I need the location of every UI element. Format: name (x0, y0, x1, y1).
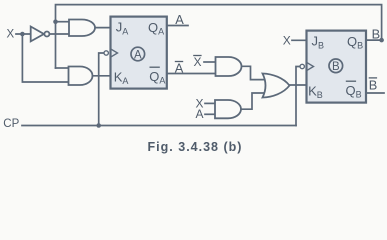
flip-flop U-B box (307, 31, 367, 103)
flip-flop B clock bubble (300, 64, 304, 68)
svg-text:A: A (134, 49, 142, 61)
wire: top-left AND output to JA input (95, 27, 111, 29)
wire: X stub into bottom-middle AND upper input (205, 102, 215, 104)
wire: OR output to KB input (290, 84, 307, 86)
inverter (NOT gate) on X input (31, 27, 44, 42)
svg-text:B: B (372, 26, 381, 41)
AND gate lower-left (inputs B, X; output to KA) (69, 67, 93, 86)
wire: CP line (22, 125, 296, 127)
AND gate bottom-middle (inputs X, A) (215, 100, 241, 118)
svg-text:X: X (283, 33, 291, 47)
flip-flop A clock triangle (104, 49, 118, 57)
circled designator B (329, 59, 343, 73)
wire: X input to inverter (16, 33, 31, 35)
wire: X node down then right to lower-left AND lower input (22, 34, 69, 82)
wire: clock B from CP line up to clock bubble (296, 67, 301, 126)
flip-flop B pin labels (308, 34, 363, 100)
junction: feedback B branch node (53, 19, 58, 24)
svg-text:Fig. 3.4.38 (b): Fig. 3.4.38 (b) (148, 140, 243, 154)
wire: X input stub to JB (292, 39, 307, 41)
svg-text:A: A (175, 60, 184, 75)
wire: inverter output Xbar to top-left AND lower input (49, 33, 69, 35)
junction: CP tap to clock A (96, 123, 101, 128)
wire: clock A from CP line up to clock bubble (99, 53, 104, 126)
wire: QbarA output to top-middle AND lower input (net Abar) (167, 73, 216, 75)
flip-flop A pin labels (114, 20, 166, 86)
AND gate top-left (inputs B, Xbar; output to JA) (69, 20, 95, 37)
flip-flop U-A box (111, 17, 167, 89)
svg-text:B: B (332, 61, 340, 73)
svg-text:A: A (196, 107, 204, 121)
wire: feedback B corner into lower-left AND upper input (56, 67, 70, 69)
overline on QbarB (346, 80, 356, 82)
wire: Xbar stub into top-middle AND upper input (204, 61, 216, 63)
wire: QA output labelled A (167, 25, 188, 27)
flip-flop B clock triangle (300, 62, 314, 70)
wire: feedback net B from QB output across top and down the left side (56, 5, 382, 68)
wire: A stub into bottom-middle AND lower input (205, 113, 215, 115)
wire: top-middle AND output step down to OR upper input (242, 66, 266, 79)
junction: X input node (20, 32, 25, 37)
AND gate top-middle (inputs Xbar, Abar) (216, 57, 242, 76)
junction: QB output node B (379, 38, 384, 43)
svg-text:CP: CP (3, 118, 19, 130)
wire: branch from feedback B to top-left AND upper input (56, 21, 70, 23)
wire: QB output labelled B (366, 39, 382, 41)
wire: QbarB output labelled Bbar (366, 92, 384, 94)
svg-text:A: A (175, 12, 184, 27)
wire: bottom-middle AND output step up to OR lower input (241, 93, 265, 109)
overline on QbarA (150, 66, 160, 68)
flip-flop A clock bubble (104, 51, 108, 55)
svg-text:B: B (369, 78, 378, 93)
svg-text:X: X (194, 55, 202, 69)
svg-text:X: X (7, 29, 15, 41)
OR gate (middle) (263, 74, 290, 98)
circled designator A (131, 47, 145, 61)
wire: lower-left AND output to KA input (93, 75, 111, 77)
